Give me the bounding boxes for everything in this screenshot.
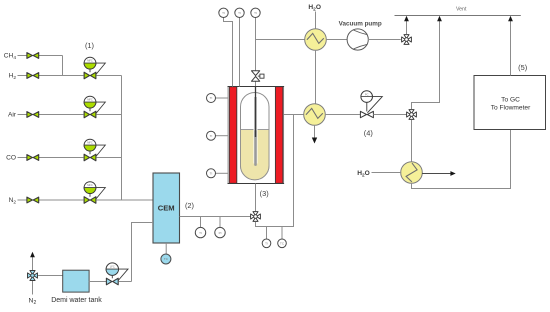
svg-text:(2): (2) [185, 201, 194, 210]
svg-text:MFC: MFC [87, 98, 93, 102]
svg-text:Vent: Vent [456, 6, 467, 12]
svg-text:PC: PC [365, 92, 369, 96]
svg-text:PI: PI [219, 231, 222, 235]
svg-text:MFC: MFC [87, 59, 93, 63]
svg-text:TI: TI [222, 11, 225, 15]
svg-text:To Flowmeter: To Flowmeter [491, 105, 531, 112]
svg-text:Vacuum pump: Vacuum pump [339, 21, 382, 28]
svg-text:LFC: LFC [110, 265, 115, 269]
svg-text:TI: TI [199, 231, 202, 235]
svg-text:(1): (1) [85, 41, 94, 50]
svg-text:To GC: To GC [501, 97, 520, 104]
svg-text:MFC: MFC [87, 141, 93, 145]
svg-text:TI: TI [210, 134, 213, 138]
svg-text:Demi water tank: Demi water tank [51, 297, 102, 304]
svg-text:(5): (5) [518, 63, 527, 72]
svg-text:TI: TI [265, 242, 268, 246]
svg-text:TI: TI [254, 11, 257, 15]
svg-text:CO: CO [6, 155, 16, 162]
svg-text:MFC: MFC [87, 183, 93, 187]
svg-text:(4): (4) [364, 129, 373, 138]
svg-text:Air: Air [8, 112, 17, 119]
svg-text:TI: TI [238, 11, 241, 15]
svg-text:TI: TI [210, 96, 213, 100]
svg-text:CEM: CEM [158, 204, 175, 213]
svg-text:(3): (3) [260, 189, 269, 198]
svg-text:TI: TI [210, 172, 213, 176]
